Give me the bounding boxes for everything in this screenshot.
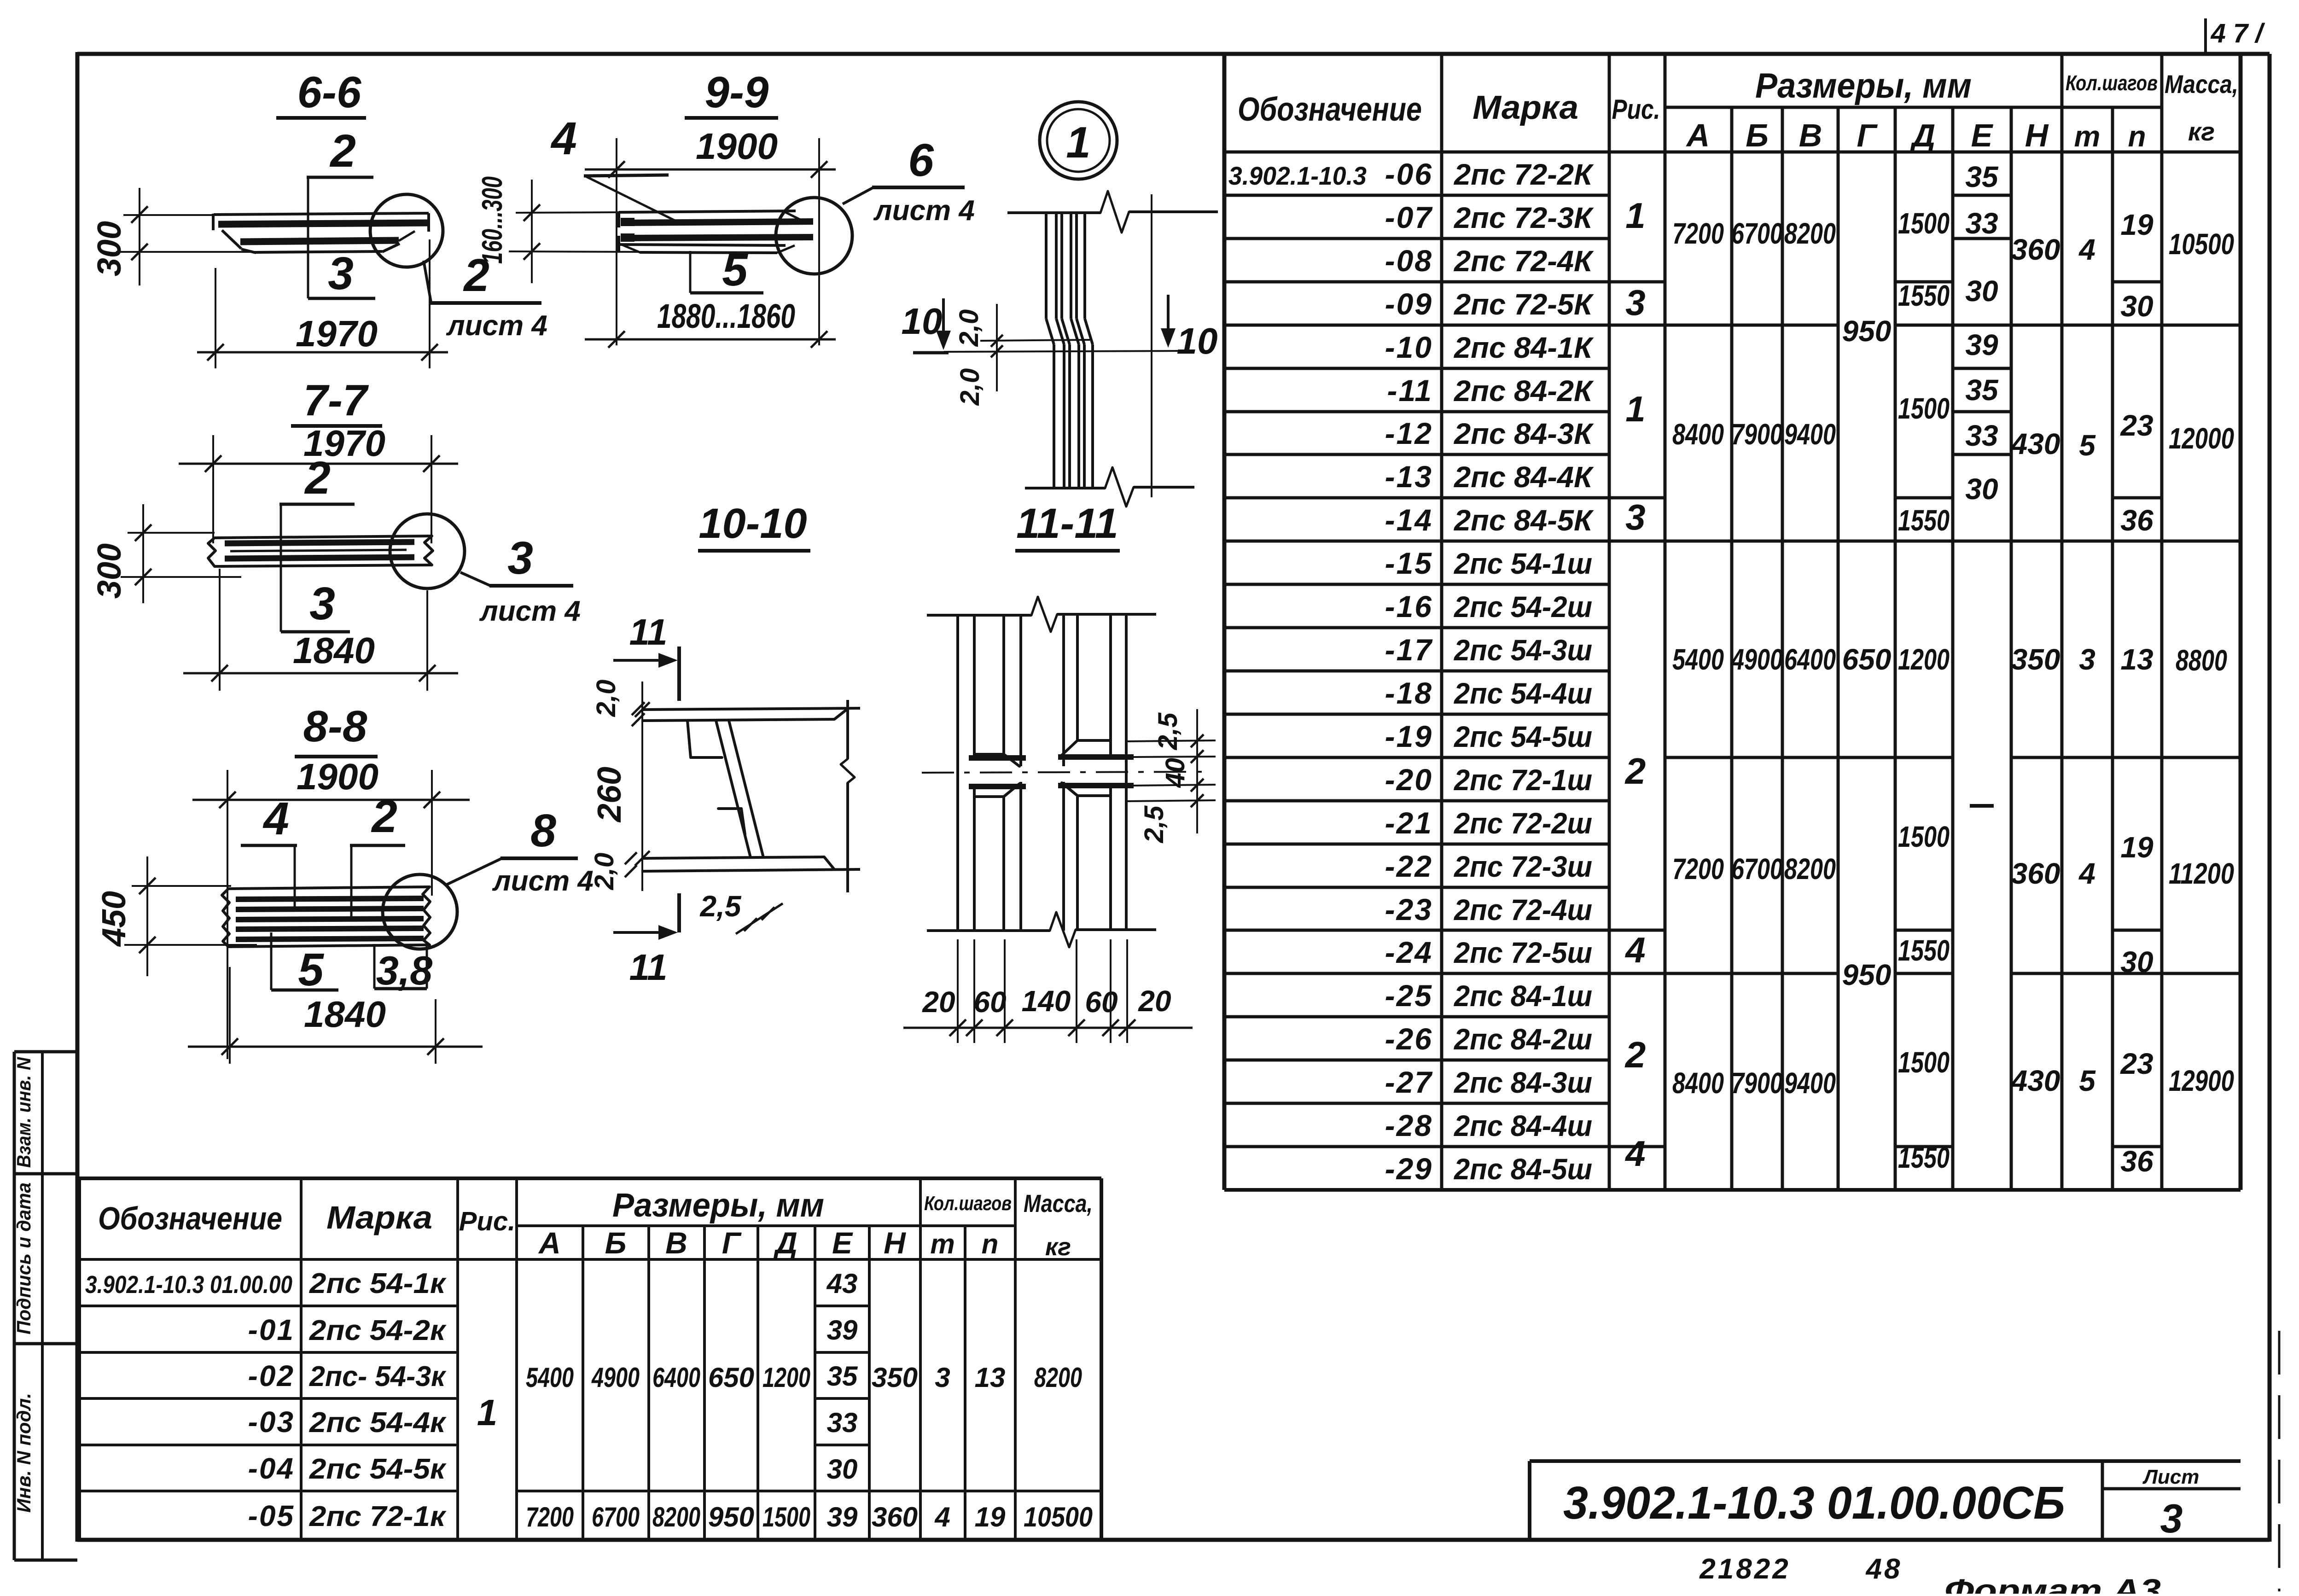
svg-text:160...300: 160...300 <box>477 176 508 264</box>
svg-text:360: 360 <box>2011 857 2060 890</box>
bottom-left specification table grid <box>77 1178 81 1540</box>
svg-text:3: 3 <box>2079 643 2095 676</box>
svg-text:30: 30 <box>2120 945 2153 979</box>
dimensions 20 60 140 60 20 bottom (plan 11-11) <box>903 1027 1193 1029</box>
svg-text:10: 10 <box>902 301 943 342</box>
big specification table grid <box>1222 55 1227 1190</box>
svg-text:Г: Г <box>722 1226 742 1260</box>
svg-text:950: 950 <box>1842 315 1892 348</box>
plan 11-11 bottom edge with break <box>927 929 1050 932</box>
svg-text:2: 2 <box>304 452 331 504</box>
svg-text:-28: -28 <box>1385 1108 1433 1142</box>
svg-text:2: 2 <box>371 791 397 842</box>
svg-text:Марка: Марка <box>326 1200 432 1235</box>
svg-text:2,5: 2,5 <box>700 890 742 923</box>
section line 10 right <box>1151 194 1152 497</box>
wall elevation panel lines upper <box>1045 213 1048 319</box>
svg-text:6: 6 <box>908 134 934 186</box>
wall joint lines <box>980 340 1090 341</box>
svg-text:360: 360 <box>2011 233 2060 266</box>
svg-text:2пс 72-1к: 2пс 72-1к <box>309 1501 447 1532</box>
svg-text:23: 23 <box>2120 409 2153 442</box>
svg-text:2пс 54-5ш: 2пс 54-5ш <box>1454 720 1592 753</box>
svg-text:3: 3 <box>328 248 354 299</box>
svg-text:-07: -07 <box>1385 200 1433 234</box>
svg-text:2пс 72-4К: 2пс 72-4К <box>1454 245 1594 278</box>
left margin stamp boxes <box>14 1050 77 1054</box>
svg-text:11200: 11200 <box>2169 857 2234 890</box>
svg-text:1900: 1900 <box>297 756 378 797</box>
svg-text:2пс 72-4ш: 2пс 72-4ш <box>1454 893 1592 926</box>
slab section 9-9 lower plank <box>623 237 813 238</box>
svg-text:5: 5 <box>2079 1064 2096 1097</box>
svg-text:1500: 1500 <box>1898 1046 1950 1079</box>
page right edge dashed mark <box>2278 1331 2281 1591</box>
svg-text:4: 4 <box>934 1502 950 1532</box>
svg-text:5: 5 <box>722 244 748 296</box>
svg-text:-13: -13 <box>1385 460 1433 494</box>
node marker circle 1 <box>1040 102 1117 179</box>
svg-text:-19: -19 <box>1385 719 1433 753</box>
svg-text:1970: 1970 <box>296 313 378 354</box>
svg-text:19: 19 <box>2120 208 2153 241</box>
svg-text:5: 5 <box>298 944 324 996</box>
svg-text:-16: -16 <box>1385 589 1433 623</box>
detail circle (view 7-7) <box>390 514 465 588</box>
svg-text:2пс 84-1К: 2пс 84-1К <box>1454 331 1594 364</box>
svg-text:7200: 7200 <box>1672 852 1724 885</box>
svg-text:48: 48 <box>1865 1553 1903 1585</box>
svg-text:9-9: 9-9 <box>705 68 769 117</box>
svg-text:4900: 4900 <box>1730 643 1783 676</box>
svg-text:10500: 10500 <box>2169 227 2234 261</box>
svg-text:2пс 72-2К: 2пс 72-2К <box>1454 158 1594 191</box>
slab section 6-6 <box>214 213 429 215</box>
svg-text:-14: -14 <box>1385 503 1433 537</box>
svg-text:23: 23 <box>2120 1047 2153 1080</box>
svg-text:1840: 1840 <box>304 994 386 1035</box>
svg-text:8200: 8200 <box>1784 217 1836 250</box>
svg-text:-02: -02 <box>248 1359 295 1392</box>
svg-text:350: 350 <box>872 1362 918 1393</box>
svg-text:1500: 1500 <box>1898 207 1950 240</box>
svg-text:-06: -06 <box>1385 157 1433 191</box>
leader 8 / лист 4 (view 8-8) <box>446 858 502 885</box>
svg-text:2пс 72-5К: 2пс 72-5К <box>1454 288 1594 321</box>
svg-text:3.902.1-10.3: 3.902.1-10.3 <box>1228 161 1367 190</box>
svg-text:6700: 6700 <box>1731 217 1783 250</box>
svg-text:5400: 5400 <box>526 1362 574 1393</box>
svg-text:2пс 54-3ш: 2пс 54-3ш <box>1454 634 1592 667</box>
svg-text:4: 4 <box>550 113 577 164</box>
sheet frame border <box>77 52 2270 56</box>
svg-text:Б: Б <box>605 1226 627 1260</box>
svg-text:1550: 1550 <box>1898 1141 1950 1174</box>
svg-text:11: 11 <box>629 947 667 988</box>
svg-text:30: 30 <box>1965 472 1998 506</box>
svg-text:1550: 1550 <box>1898 279 1950 312</box>
leader 3 / лист 4 (view 7-7) <box>460 572 490 586</box>
svg-text:-12: -12 <box>1385 416 1433 450</box>
svg-text:650: 650 <box>1842 643 1892 676</box>
plan 11-11 vertical panel lines <box>956 615 959 931</box>
svg-text:3,8: 3,8 <box>376 948 432 993</box>
svg-text:2пс 84-3ш: 2пс 84-3ш <box>1454 1066 1592 1099</box>
svg-text:-03: -03 <box>248 1405 295 1439</box>
svg-text:40: 40 <box>1160 758 1190 788</box>
svg-text:10500: 10500 <box>1024 1502 1093 1532</box>
svg-text:2пс 72-3ш: 2пс 72-3ш <box>1454 850 1592 883</box>
svg-text:39: 39 <box>1965 328 1998 361</box>
svg-text:2пс 54-4к: 2пс 54-4к <box>309 1407 447 1439</box>
svg-text:-29: -29 <box>1385 1152 1433 1186</box>
svg-text:кг: кг <box>2188 117 2215 146</box>
plan 11-11 slab edges left <box>969 755 1026 761</box>
svg-text:кг: кг <box>1045 1233 1071 1261</box>
svg-text:Кол.шагов: Кол.шагов <box>924 1192 1012 1215</box>
svg-text:10: 10 <box>1177 320 1218 361</box>
svg-text:43: 43 <box>826 1268 858 1299</box>
svg-text:2: 2 <box>329 125 356 177</box>
svg-text:2пс- 54-3к: 2пс- 54-3к <box>309 1361 447 1392</box>
svg-text:Обозначение: Обозначение <box>1238 91 1422 128</box>
svg-text:n: n <box>2128 120 2146 153</box>
svg-text:Масса,: Масса, <box>1024 1190 1093 1217</box>
bottom plank (view 10-10) <box>642 857 824 858</box>
svg-text:6-6: 6-6 <box>297 68 361 117</box>
svg-text:13: 13 <box>2120 643 2153 676</box>
svg-text:300: 300 <box>91 221 128 276</box>
svg-text:А: А <box>538 1226 561 1260</box>
svg-text:2пс 72-3К: 2пс 72-3К <box>1454 201 1594 234</box>
svg-text:8200: 8200 <box>652 1502 700 1532</box>
svg-text:6700: 6700 <box>592 1502 640 1532</box>
svg-text:3: 3 <box>1625 497 1645 537</box>
svg-text:2пс 72-1ш: 2пс 72-1ш <box>1454 763 1592 797</box>
svg-text:300: 300 <box>91 543 128 599</box>
svg-text:Е: Е <box>832 1226 853 1260</box>
svg-text:3: 3 <box>935 1362 950 1393</box>
svg-text:33: 33 <box>827 1407 858 1438</box>
svg-text:Обозначение: Обозначение <box>98 1200 282 1236</box>
wall elevation top edge with break <box>1007 211 1100 214</box>
diagonal strut (view 10-10) <box>716 721 751 857</box>
svg-text:4: 4 <box>2078 233 2095 266</box>
svg-text:33: 33 <box>1965 207 1998 240</box>
svg-text:9400: 9400 <box>1784 418 1836 451</box>
slab section 9-9 upper plank <box>619 211 796 212</box>
svg-text:2пс 54-2ш: 2пс 54-2ш <box>1454 590 1592 623</box>
svg-text:36: 36 <box>2120 1145 2153 1178</box>
svg-text:8800: 8800 <box>2176 644 2227 677</box>
svg-text:4: 4 <box>1624 1133 1645 1174</box>
svg-text:m: m <box>930 1229 955 1259</box>
svg-text:3.902.1-10.3 01.00.00СБ: 3.902.1-10.3 01.00.00СБ <box>1563 1477 2065 1529</box>
svg-text:35: 35 <box>827 1361 858 1392</box>
svg-text:4 7 /: 4 7 / <box>2211 18 2266 48</box>
svg-text:Формат А3: Формат А3 <box>1944 1573 2161 1594</box>
svg-text:30: 30 <box>1965 274 1998 308</box>
svg-text:-04: -04 <box>248 1452 295 1485</box>
svg-text:1: 1 <box>1625 389 1645 429</box>
svg-text:1500: 1500 <box>762 1502 810 1532</box>
svg-text:10-10: 10-10 <box>698 500 807 547</box>
svg-text:2пс 54-4ш: 2пс 54-4ш <box>1454 677 1592 710</box>
svg-text:35: 35 <box>1965 160 1999 193</box>
svg-text:лист 4: лист 4 <box>479 595 581 627</box>
svg-text:3: 3 <box>2160 1496 2183 1541</box>
svg-text:Подпись и дата: Подпись и дата <box>13 1182 35 1334</box>
svg-text:Масса,: Масса, <box>2165 70 2238 99</box>
wall elevation panel lines lower <box>1053 344 1055 488</box>
svg-text:3: 3 <box>309 578 335 629</box>
svg-text:2пс 54-1ш: 2пс 54-1ш <box>1454 547 1592 580</box>
svg-text:33: 33 <box>1965 419 1998 452</box>
svg-text:7900: 7900 <box>1731 418 1783 451</box>
svg-text:1500: 1500 <box>1898 392 1950 425</box>
svg-text:12900: 12900 <box>2169 1064 2234 1097</box>
svg-text:2пс 84-4К: 2пс 84-4К <box>1454 460 1594 494</box>
svg-text:60: 60 <box>973 985 1006 1019</box>
section marker 10 right <box>1167 295 1170 344</box>
svg-text:13: 13 <box>975 1362 1006 1393</box>
svg-text:30: 30 <box>827 1454 858 1485</box>
slab section 7-7 <box>215 536 432 538</box>
svg-text:20: 20 <box>1138 984 1171 1018</box>
svg-text:Кол.шагов: Кол.шагов <box>2066 71 2158 95</box>
plan 11-11 slab edges right <box>1058 754 1134 760</box>
svg-text:-08: -08 <box>1385 244 1433 278</box>
svg-text:Размеры, мм: Размеры, мм <box>612 1187 824 1224</box>
svg-text:А: А <box>1686 117 1710 153</box>
svg-text:лист 4: лист 4 <box>446 310 547 342</box>
svg-text:360: 360 <box>872 1502 918 1532</box>
svg-text:4: 4 <box>1624 930 1645 970</box>
svg-text:4900: 4900 <box>591 1362 640 1393</box>
detail circle (view 9-9) <box>776 198 852 274</box>
svg-text:2пс 72-2ш: 2пс 72-2ш <box>1454 807 1592 840</box>
svg-text:-09: -09 <box>1385 287 1433 321</box>
svg-text:Инв. N подл.: Инв. N подл. <box>13 1393 35 1513</box>
svg-text:430: 430 <box>2010 427 2060 460</box>
svg-text:Рис.: Рис. <box>459 1206 516 1236</box>
svg-text:7200: 7200 <box>1672 217 1724 250</box>
svg-text:2,5: 2,5 <box>1139 805 1169 843</box>
svg-text:1200: 1200 <box>762 1362 810 1393</box>
svg-text:-23: -23 <box>1385 892 1433 926</box>
svg-text:лист 4: лист 4 <box>873 195 975 227</box>
svg-text:-17: -17 <box>1385 633 1433 667</box>
svg-text:5: 5 <box>2079 429 2096 462</box>
svg-text:1: 1 <box>1066 118 1090 167</box>
svg-text:1840: 1840 <box>293 630 375 671</box>
svg-text:m: m <box>2074 120 2101 153</box>
svg-text:3: 3 <box>1625 282 1645 323</box>
svg-text:-26: -26 <box>1385 1022 1433 1056</box>
svg-text:8400: 8400 <box>1672 418 1724 451</box>
svg-text:2,5: 2,5 <box>1153 712 1183 750</box>
svg-text:n: n <box>982 1229 999 1259</box>
svg-text:2пс 84-3К: 2пс 84-3К <box>1454 417 1594 450</box>
svg-text:350: 350 <box>2011 643 2060 676</box>
svg-text:лист 4: лист 4 <box>492 865 594 897</box>
svg-text:-25: -25 <box>1385 979 1433 1013</box>
svg-text:950: 950 <box>1842 958 1892 991</box>
svg-text:3.902.1-10.3 01.00.00: 3.902.1-10.3 01.00.00 <box>85 1271 292 1299</box>
svg-text:В: В <box>665 1226 687 1260</box>
leader 6 / лист 4 (view 9-9) <box>843 187 873 204</box>
svg-text:5400: 5400 <box>1672 643 1724 676</box>
svg-text:2: 2 <box>1624 1034 1646 1075</box>
svg-text:12000: 12000 <box>2169 422 2234 455</box>
slab section 8-8 <box>228 887 430 889</box>
svg-text:39: 39 <box>827 1315 858 1346</box>
svg-text:11-11: 11-11 <box>1016 500 1118 547</box>
svg-text:-18: -18 <box>1385 676 1433 710</box>
svg-text:-05: -05 <box>248 1499 295 1532</box>
svg-text:2пс 54-5к: 2пс 54-5к <box>309 1453 447 1485</box>
svg-text:6400: 6400 <box>1784 643 1836 676</box>
svg-text:2,0: 2,0 <box>589 853 619 891</box>
svg-text:7900: 7900 <box>1731 1066 1783 1100</box>
svg-text:8200: 8200 <box>1784 852 1836 885</box>
svg-text:2пс 84-2ш: 2пс 84-2ш <box>1454 1023 1592 1056</box>
svg-text:-24: -24 <box>1385 935 1433 969</box>
svg-text:1550: 1550 <box>1898 934 1950 967</box>
svg-text:450: 450 <box>96 891 133 947</box>
svg-text:2пс 84-2К: 2пс 84-2К <box>1454 374 1594 408</box>
svg-text:8400: 8400 <box>1672 1066 1724 1100</box>
svg-text:11: 11 <box>629 612 667 652</box>
svg-text:Размеры, мм: Размеры, мм <box>1755 66 1972 105</box>
svg-text:Е: Е <box>1971 117 1994 153</box>
svg-text:Марка: Марка <box>1473 89 1578 126</box>
svg-text:1550: 1550 <box>1898 504 1950 537</box>
svg-text:2пс 84-1ш: 2пс 84-1ш <box>1454 979 1592 1013</box>
detail circle (view 6-6) <box>370 194 443 267</box>
svg-text:2пс 72-5ш: 2пс 72-5ш <box>1454 936 1592 969</box>
svg-text:7200: 7200 <box>526 1502 574 1532</box>
leader to лист 4 (view 6-6) <box>424 261 431 302</box>
svg-text:2пс 84-5ш: 2пс 84-5ш <box>1454 1153 1592 1186</box>
svg-text:60: 60 <box>1085 985 1117 1019</box>
right edge with break (view 10-10) <box>846 700 849 759</box>
svg-text:1200: 1200 <box>1898 643 1950 676</box>
svg-text:-10: -10 <box>1385 330 1433 364</box>
plan 11-11 center dash line <box>922 772 1204 773</box>
svg-text:2: 2 <box>1624 751 1646 792</box>
svg-text:2,0: 2,0 <box>955 368 985 406</box>
svg-text:8200: 8200 <box>1034 1362 1082 1393</box>
svg-text:650: 650 <box>708 1362 754 1393</box>
top plank (view 10-10) <box>642 708 860 710</box>
svg-text:20: 20 <box>922 985 955 1019</box>
svg-text:Рис.: Рис. <box>1612 94 1660 125</box>
svg-text:39: 39 <box>827 1502 858 1532</box>
svg-text:2,0: 2,0 <box>591 680 621 717</box>
wall elevation bottom edge with break <box>1025 487 1105 489</box>
svg-text:1880...1860: 1880...1860 <box>657 297 795 335</box>
svg-text:8-8: 8-8 <box>303 702 367 751</box>
svg-text:30: 30 <box>2120 290 2153 323</box>
svg-text:-27: -27 <box>1385 1065 1433 1099</box>
svg-text:1500: 1500 <box>1898 820 1950 853</box>
svg-text:36: 36 <box>2120 504 2153 537</box>
svg-text:2пс 84-5К: 2пс 84-5К <box>1454 504 1594 537</box>
svg-text:1: 1 <box>477 1392 498 1433</box>
svg-text:2пс 84-4ш: 2пс 84-4ш <box>1454 1109 1592 1142</box>
svg-text:260: 260 <box>591 767 628 823</box>
svg-text:Взам. инв. N: Взам. инв. N <box>13 1056 35 1168</box>
svg-text:Г: Г <box>1857 117 1878 153</box>
dash in Е column <box>1970 804 1994 808</box>
svg-text:19: 19 <box>975 1502 1006 1532</box>
svg-text:2пс 54-1к: 2пс 54-1к <box>309 1268 447 1299</box>
svg-text:-20: -20 <box>1385 763 1433 797</box>
svg-text:-15: -15 <box>1385 546 1433 580</box>
svg-text:4: 4 <box>2078 857 2095 890</box>
svg-text:19: 19 <box>2120 831 2153 864</box>
svg-text:140: 140 <box>1022 984 1071 1018</box>
svg-text:9400: 9400 <box>1784 1066 1836 1100</box>
svg-text:6400: 6400 <box>652 1362 700 1393</box>
svg-text:-22: -22 <box>1385 849 1433 883</box>
svg-text:-11: -11 <box>1387 373 1433 408</box>
svg-text:950: 950 <box>708 1502 754 1532</box>
svg-text:Н: Н <box>884 1226 906 1260</box>
svg-text:430: 430 <box>2010 1064 2060 1097</box>
svg-text:-21: -21 <box>1385 806 1433 840</box>
svg-text:7-7: 7-7 <box>303 376 369 425</box>
svg-text:2,0: 2,0 <box>954 309 984 347</box>
svg-text:3: 3 <box>507 532 533 584</box>
svg-text:6700: 6700 <box>1731 852 1783 885</box>
wall elevation jog <box>1046 319 1054 344</box>
svg-text:-01: -01 <box>248 1313 295 1346</box>
svg-text:21822: 21822 <box>1699 1553 1790 1585</box>
title block <box>1530 1459 2241 1463</box>
svg-text:1: 1 <box>1625 195 1645 236</box>
svg-text:2пс 54-2к: 2пс 54-2к <box>309 1315 447 1346</box>
svg-text:Лист: Лист <box>2142 1466 2200 1488</box>
svg-text:Д: Д <box>773 1226 797 1260</box>
svg-text:В: В <box>1799 117 1822 153</box>
svg-text:8: 8 <box>530 805 556 856</box>
svg-text:1900: 1900 <box>696 126 778 167</box>
svg-text:Н: Н <box>2025 117 2049 153</box>
svg-text:4: 4 <box>262 793 289 845</box>
detail circle (view 8-8) <box>383 874 457 949</box>
dimension 2,5 / 40 / 2,5 right (plan 11-11) <box>1127 740 1216 741</box>
svg-text:35: 35 <box>1965 373 1999 407</box>
svg-text:Д: Д <box>1910 117 1936 153</box>
svg-text:Б: Б <box>1746 117 1769 153</box>
plan 11-11 top edge with break <box>927 614 1031 617</box>
